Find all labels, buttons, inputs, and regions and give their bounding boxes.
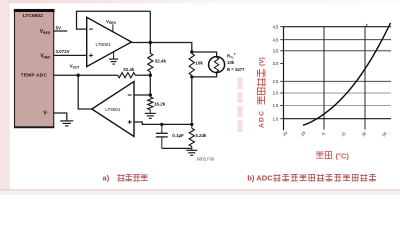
svg-text:5V: 5V <box>56 25 62 30</box>
wire feedback/output node vertical <box>149 11 151 53</box>
svg-text:(°C): (°C) <box>336 151 350 160</box>
resistor R3 16.2k <box>148 97 153 110</box>
capacitor C1 0.1uF <box>161 124 163 133</box>
node output U2 <box>149 41 152 44</box>
IC U1 LTC6802 body <box>15 10 54 128</box>
page left pink band <box>0 0 8 190</box>
svg-text:32.4k: 32.4k <box>155 58 167 63</box>
op-amp U3 LT6001 (mirrored) <box>92 82 134 137</box>
graph axes frame <box>284 27 392 131</box>
svg-text:4.5: 4.5 <box>273 24 279 29</box>
node minus input / divider <box>149 93 152 96</box>
svg-text:10k: 10k <box>195 60 203 65</box>
svg-text:1.5: 1.5 <box>273 103 279 108</box>
node TEMP/output junction <box>77 74 80 77</box>
svg-text:16.2k: 16.2k <box>154 102 166 107</box>
axis ticks left <box>280 27 283 119</box>
svg-text:32.4k: 32.4k <box>123 67 135 72</box>
op-amp U2 LT6001 <box>87 17 132 66</box>
svg-text:2.0: 2.0 <box>273 91 279 96</box>
wire VREF to op-amp + input <box>54 54 87 56</box>
wire thermistor parallel top <box>192 52 217 57</box>
IC bottom border <box>14 126 54 128</box>
ground (R5/C1) <box>186 150 197 155</box>
svg-text:3.0: 3.0 <box>273 61 279 66</box>
page top pink band <box>0 0 400 3</box>
wire V- to ground <box>54 113 67 121</box>
wire mid column <box>149 72 151 97</box>
faint watermark marks <box>238 78 243 132</box>
svg-text:6802 F06: 6802 F06 <box>197 156 215 161</box>
svg-text:ADC: ADC <box>258 110 265 128</box>
svg-text:(V): (V) <box>258 57 265 66</box>
thermistor RT1 circle <box>209 57 225 73</box>
svg-text:10k: 10k <box>227 60 235 65</box>
resistor R1 32.4k vertical <box>148 53 153 72</box>
y tick labels <box>273 24 279 121</box>
resistor R5 3.24k <box>191 124 193 128</box>
svg-text:a): a) <box>103 174 110 183</box>
graph gridlines vertical <box>324 27 365 130</box>
svg-text:2.5: 2.5 <box>273 79 279 84</box>
U2 plus input mark <box>89 53 93 57</box>
U2 supply pin stub <box>112 24 114 31</box>
U3 plus input mark <box>128 120 132 124</box>
U2 negative supply stub <box>113 52 115 59</box>
page bottom rule <box>0 189 400 190</box>
node TEMP line / divider <box>149 74 152 77</box>
node thermistor column / plus line <box>190 123 193 126</box>
U3 minus input mark <box>128 94 132 96</box>
wire cap bottom rail <box>162 147 192 149</box>
svg-text:1.0: 1.0 <box>273 116 279 121</box>
svg-text:LT6001: LT6001 <box>105 107 121 112</box>
ground (U2 supply) <box>109 59 118 64</box>
node cap junction <box>160 123 163 126</box>
svg-text:4.0: 4.0 <box>273 37 279 42</box>
svg-text:3.072V: 3.072V <box>55 49 69 54</box>
wire feedback loop U2 <box>77 11 151 29</box>
svg-text:b) ADC: b) ADC <box>247 173 273 182</box>
U2 minus input mark <box>89 28 93 30</box>
wire TEMP ADC line <box>54 74 118 76</box>
svg-text:B = 3477: B = 3477 <box>227 67 245 72</box>
x axis title temperature (C) <box>316 152 323 158</box>
resistor R4 10k <box>189 53 194 75</box>
graph gridlines horizontal <box>284 40 392 82</box>
axis tick top <box>366 24 368 27</box>
wire U3 output to TEMP line <box>78 75 92 109</box>
curve ADC voltage vs temperature <box>303 23 391 126</box>
wire thermistor parallel bottom <box>192 73 217 77</box>
svg-text:3.24k: 3.24k <box>195 133 207 138</box>
x tick labels <box>281 130 388 138</box>
wire VREG 5V stub <box>54 30 68 32</box>
wire down to plus node <box>191 77 193 125</box>
node 10k top <box>190 50 193 53</box>
ground (V-) <box>60 121 73 126</box>
resistor R2 32.4k horizontal <box>118 73 135 78</box>
node 10k bottom <box>190 75 193 78</box>
svg-text:LT6001: LT6001 <box>96 42 112 47</box>
y axis title ADC input voltage (V) <box>257 57 265 128</box>
svg-text:TEMP ADC: TEMP ADC <box>21 73 48 79</box>
svg-text:0.1µF: 0.1µF <box>172 133 184 138</box>
svg-text:LTC6802: LTC6802 <box>23 13 43 19</box>
wire U3 minus input <box>134 94 150 96</box>
wire U3 plus input <box>134 122 192 124</box>
wire U2 output rail <box>131 43 191 53</box>
ground (R3) <box>145 113 156 118</box>
svg-text:3.5: 3.5 <box>273 48 279 53</box>
thermistor RT1 element <box>214 57 218 72</box>
